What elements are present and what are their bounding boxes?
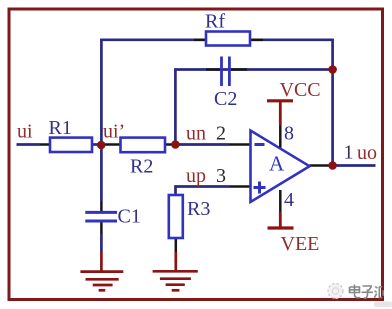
svg-text:4: 4: [284, 189, 294, 211]
wire: node up to op-amp pin 3: [176, 187, 231, 196]
svg-text:VCC: VCC: [280, 79, 321, 101]
op-amp minus sign: [255, 143, 265, 146]
glyph 子: [362, 286, 374, 298]
svg-text:2: 2: [216, 123, 226, 145]
junction dot output node: [328, 161, 337, 170]
svg-text:R3: R3: [187, 198, 210, 220]
junction dot node un: [171, 140, 180, 149]
ground under R3: [153, 271, 198, 290]
wire: black stubs around C2: [206, 68, 220, 71]
watermark logo circle: [328, 284, 343, 299]
wire: node un to op-amp pin 2: [175, 143, 229, 146]
wire: input ui to R1: [17, 143, 41, 146]
glyph 电: [350, 285, 361, 298]
svg-text:un: un: [186, 123, 206, 145]
wire: C1 to ground: [100, 221, 103, 234]
wire: op-amp output pin 1: [310, 164, 333, 167]
capacitor C1 plates: [85, 211, 117, 214]
watermark text 电子汇 (hand drawn glyphs): [350, 285, 384, 299]
op-amp pin 8 power line: [279, 101, 282, 126]
svg-text:1: 1: [344, 142, 354, 164]
wire: top feedback wire (Rf net): [101, 40, 332, 166]
wire: node ui' down to C1: [100, 145, 103, 201]
svg-text:Rf: Rf: [205, 11, 225, 33]
svg-text:up: up: [186, 165, 206, 187]
svg-text:8: 8: [284, 123, 294, 145]
svg-text:ui’: ui’: [103, 121, 125, 143]
junction dot C2/right vertical: [328, 65, 337, 74]
resistor R3: [169, 195, 183, 238]
svg-text:A: A: [269, 152, 285, 176]
resistor R1: [50, 138, 92, 152]
resistor Rf: [206, 32, 250, 46]
glyph 汇: [374, 287, 383, 298]
watermark shadow below border: [374, 302, 392, 308]
VCC power bar: [267, 99, 293, 102]
wire: node ui' to R2: [101, 143, 120, 146]
svg-text:ui: ui: [17, 121, 33, 143]
wire: R2 to node un: [165, 143, 175, 146]
svg-text:R2: R2: [130, 156, 153, 178]
svg-text:C2: C2: [214, 88, 237, 110]
svg-text:uo: uo: [357, 142, 377, 164]
wire: R3 to ground: [175, 238, 178, 252]
ground under C1: [80, 272, 123, 291]
junction dot node ui': [97, 141, 106, 150]
op-amp pin 4 power line: [279, 190, 282, 212]
VEE power bar: [268, 226, 294, 229]
svg-text:3: 3: [216, 165, 226, 187]
svg-text:VEE: VEE: [281, 233, 320, 255]
capacitor C2 plates: [220, 57, 223, 87]
svg-text:C1: C1: [118, 206, 141, 228]
resistor R2: [121, 138, 166, 153]
op-amp U1 triangle: [251, 131, 310, 203]
wire: black stubs around Rf: [194, 39, 206, 42]
wire: C2 feedback wire: [175, 70, 332, 145]
svg-text:R1: R1: [49, 117, 72, 139]
wire: R1 to node ui': [92, 143, 101, 146]
op-amp plus sign: [254, 186, 266, 189]
